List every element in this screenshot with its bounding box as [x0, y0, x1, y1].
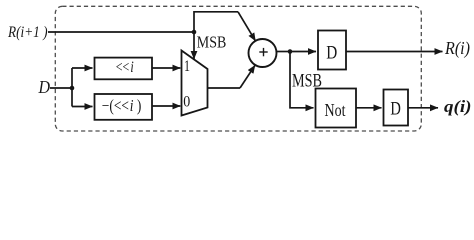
node junction on D wire: [70, 86, 75, 91]
svg-text:q(i): q(i): [444, 97, 472, 116]
svg-text:1: 1: [184, 58, 190, 75]
svg-text:Not: Not: [325, 100, 346, 120]
svg-text:D: D: [38, 77, 50, 97]
wire adder output: [276, 51, 290, 53]
input label R(i+1): [7, 24, 47, 41]
not gate box: [316, 89, 357, 128]
wire into top register D: [290, 51, 316, 53]
register D (top): [318, 31, 346, 70]
wire mux output to adder: [208, 65, 256, 88]
wire R(i+1) input: [48, 31, 194, 33]
wire from junction up and over to adder input: [194, 12, 256, 41]
wire mux select arrow: [193, 32, 195, 59]
svg-text:D: D: [390, 99, 401, 120]
wire junction down to Not gate: [290, 52, 314, 108]
wire shifter 2 to mux input 0: [152, 105, 180, 107]
negated shifter box -(<<i): [95, 94, 153, 120]
wire register to q(i) output: [408, 107, 438, 109]
mux: [182, 51, 208, 116]
shifter box <<i: [95, 58, 153, 80]
wire D input: [50, 87, 72, 89]
label MSB quotient bit: [292, 71, 322, 91]
svg-text:<<i: <<i: [116, 59, 134, 76]
wire D branch to both shifters: [72, 68, 93, 107]
svg-text:MSB: MSB: [197, 33, 227, 52]
adder: [249, 39, 277, 67]
node junction after adder: [288, 49, 293, 54]
label MSB at mux select: [197, 33, 227, 52]
svg-text:R(i): R(i): [444, 38, 470, 59]
wire Not to bottom register D: [356, 107, 382, 109]
svg-text:−(<<i ): −(<<i ): [102, 96, 142, 115]
dashed enclosure border: [55, 6, 421, 131]
svg-text:D: D: [326, 42, 337, 63]
wire register to R(i) output: [346, 51, 443, 53]
input label D: [38, 77, 50, 97]
svg-text:R(i+1 ): R(i+1 ): [7, 24, 47, 41]
output label R(i): [444, 38, 470, 59]
output label q(i): [444, 97, 472, 116]
svg-text:0: 0: [183, 93, 190, 110]
register D (bottom): [384, 90, 409, 126]
node junction on R(i+1) wire: [192, 30, 197, 35]
wire shifter 1 to mux input 1: [152, 67, 180, 69]
